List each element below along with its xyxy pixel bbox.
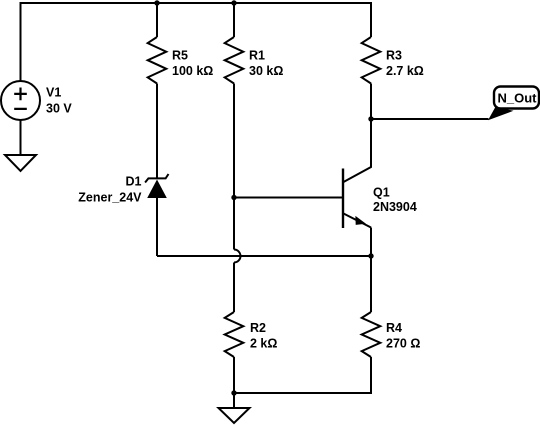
svg-text:30 kΩ: 30 kΩ [249, 64, 283, 78]
svg-text:100 kΩ: 100 kΩ [172, 64, 213, 78]
svg-text:R1: R1 [249, 49, 265, 63]
svg-text:270 Ω: 270 Ω [386, 337, 420, 351]
svg-text:2 kΩ: 2 kΩ [250, 337, 277, 351]
svg-text:N_Out: N_Out [498, 91, 538, 106]
svg-text:D1: D1 [126, 175, 142, 189]
svg-text:2.7 kΩ: 2.7 kΩ [386, 64, 424, 78]
svg-text:R3: R3 [386, 49, 402, 63]
svg-text:R2: R2 [250, 321, 266, 335]
svg-text:30 V: 30 V [46, 102, 72, 116]
svg-text:R4: R4 [386, 321, 402, 335]
svg-text:Q1: Q1 [373, 186, 390, 200]
svg-text:V1: V1 [46, 86, 61, 100]
svg-text:Zener_24V: Zener_24V [78, 191, 142, 205]
svg-text:2N3904: 2N3904 [373, 200, 417, 214]
svg-text:R5: R5 [172, 49, 188, 63]
